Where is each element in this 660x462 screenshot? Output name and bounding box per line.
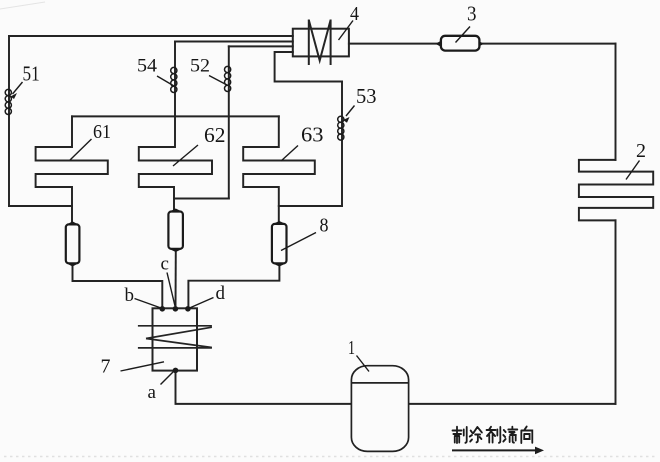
heat exchanger 63 bbox=[243, 116, 315, 222]
wire top-left port to box4 bbox=[9, 35, 293, 37]
faint top-left artifact bbox=[0, 2, 45, 9]
svg-text:52: 52 bbox=[190, 57, 210, 77]
label 52 bbox=[190, 57, 227, 86]
svg-text:d: d bbox=[216, 283, 226, 304]
node c bbox=[173, 306, 179, 312]
svg-text:b: b bbox=[125, 285, 135, 306]
four-way valve U4 bbox=[293, 20, 349, 66]
svg-text:54: 54 bbox=[137, 57, 157, 77]
svg-text:51: 51 bbox=[23, 62, 40, 86]
svg-text:3: 3 bbox=[467, 2, 477, 26]
char leng bbox=[470, 427, 482, 442]
wire filter line box4 to right bbox=[349, 43, 616, 45]
char xiang bbox=[521, 427, 532, 444]
wire right vertical up to HX2 bbox=[615, 220, 617, 404]
filter 3 bbox=[436, 36, 482, 51]
capillary capsule 8 below 63 bbox=[272, 222, 287, 267]
faint bottom dotted artifact bbox=[4, 456, 656, 458]
heat exchanger 61 bbox=[36, 116, 108, 223]
node a bbox=[173, 368, 179, 374]
wire coil53 bottom to HX63 exit bbox=[279, 205, 342, 207]
wire port4 step bbox=[275, 52, 342, 82]
svg-text:8: 8 bbox=[320, 215, 329, 237]
wire mid rail bbox=[72, 115, 279, 117]
char liu bbox=[503, 427, 517, 443]
capillary capsule below 62 bbox=[168, 209, 183, 251]
wire tank to right vertical bbox=[409, 403, 616, 405]
label 63 bbox=[281, 123, 324, 162]
wire left vertical bbox=[8, 36, 10, 206]
label 62 bbox=[173, 123, 226, 166]
label 4 bbox=[339, 3, 360, 40]
capillary capsule below 61 bbox=[66, 222, 80, 266]
heat exchanger 2 bbox=[579, 160, 653, 221]
wire HX2 top vertical bbox=[615, 44, 617, 160]
coil 53 bbox=[338, 116, 344, 140]
svg-text:a: a bbox=[148, 382, 157, 403]
label 61 bbox=[70, 121, 111, 160]
label 3 bbox=[456, 2, 477, 43]
compressor tank 1 bbox=[351, 366, 408, 452]
svg-text:c: c bbox=[161, 254, 169, 275]
svg-text:7: 7 bbox=[101, 356, 111, 378]
svg-text:1: 1 bbox=[348, 337, 355, 359]
wire left bottom to HX61 exit bbox=[9, 205, 72, 207]
coil inside box 7 bbox=[138, 326, 212, 348]
label 2 bbox=[626, 140, 646, 180]
svg-text:63: 63 bbox=[301, 123, 324, 147]
node d bbox=[185, 306, 191, 312]
label a bbox=[148, 372, 174, 404]
wire coil53 vertical bbox=[341, 82, 343, 207]
coil 52 bbox=[225, 66, 231, 91]
label b bbox=[125, 285, 162, 308]
wire bypass to HX62 exit bbox=[174, 198, 229, 200]
label 8 bbox=[281, 215, 329, 251]
label 54 bbox=[137, 57, 174, 87]
svg-text:53: 53 bbox=[356, 84, 377, 108]
svg-text:62: 62 bbox=[204, 123, 226, 147]
wire coil52 vertical bbox=[228, 46, 230, 198]
wire capsuleC to node d bbox=[188, 264, 279, 308]
wire capsuleA to node b bbox=[73, 264, 163, 308]
subcooler box 7 bbox=[153, 308, 198, 370]
heat exchanger 62 bbox=[139, 147, 212, 211]
label d bbox=[190, 283, 226, 308]
flow arrow bbox=[452, 447, 544, 455]
label 51 bbox=[11, 62, 40, 100]
label 1 bbox=[348, 337, 369, 372]
svg-text:61: 61 bbox=[93, 121, 111, 143]
wire coil54 vertical bbox=[174, 42, 176, 148]
wire port2 to coil54 line bbox=[175, 41, 293, 43]
char zhi bbox=[453, 427, 467, 443]
flow direction caption 制冷剂流向 bbox=[453, 427, 533, 444]
wire port3 to coil52 line bbox=[229, 45, 293, 47]
label 53 bbox=[343, 84, 377, 123]
svg-text:2: 2 bbox=[636, 140, 646, 162]
node b bbox=[160, 306, 166, 312]
char ji bbox=[487, 427, 501, 443]
wire capsuleB to node c bbox=[175, 250, 177, 308]
label 7 bbox=[101, 356, 165, 378]
wire node a down and right to tank bbox=[176, 371, 352, 404]
label c bbox=[161, 254, 176, 307]
coil 51 bbox=[5, 89, 11, 114]
coil 54 bbox=[171, 67, 177, 92]
